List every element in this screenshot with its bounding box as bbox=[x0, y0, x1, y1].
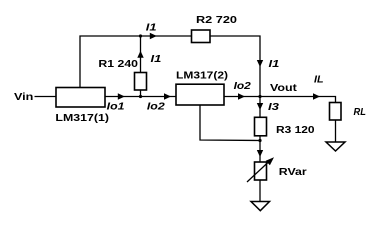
wire RL to ground bbox=[335, 120, 337, 142]
wire R1 bottom stub bbox=[140, 90, 142, 97]
wire top rail right segment bbox=[210, 36, 260, 97]
svg-text:I3: I3 bbox=[268, 102, 279, 113]
svg-text:I1: I1 bbox=[151, 54, 162, 65]
svg-text:R3 120: R3 120 bbox=[276, 125, 315, 136]
resistor R3 bbox=[255, 117, 267, 136]
arrow IL bbox=[313, 93, 320, 99]
svg-text:I1: I1 bbox=[269, 59, 280, 70]
resistor R2 bbox=[192, 30, 211, 43]
svg-text:LM317(2): LM317(2) bbox=[176, 71, 228, 82]
ground under RVar bbox=[251, 202, 270, 211]
wire R3 bottom stub bbox=[259, 136, 261, 141]
node Vout junction dot bbox=[258, 95, 261, 98]
wire LM317(2) adj to junction bbox=[200, 105, 260, 141]
svg-text:Io2: Io2 bbox=[147, 102, 165, 113]
svg-text:LM317(1): LM317(1) bbox=[55, 113, 109, 124]
svg-text:Vout: Vout bbox=[270, 83, 297, 94]
resistor R1 bbox=[135, 73, 147, 91]
arrow I1 up through R1 bbox=[137, 51, 143, 58]
svg-text:RVar: RVar bbox=[279, 167, 307, 178]
wire Vout to RL bbox=[260, 97, 336, 103]
resistor RL bbox=[330, 103, 342, 121]
arrow Io2 bbox=[164, 93, 171, 99]
wire LM317(2) output bbox=[224, 96, 260, 98]
regulator U2 LM317(2) bbox=[176, 84, 224, 105]
wire Vin lead bbox=[35, 96, 57, 98]
arrow Io1 bbox=[118, 93, 125, 99]
arrow I1 down bbox=[257, 60, 263, 67]
svg-text:IL: IL bbox=[314, 74, 324, 85]
wire main bus LM317(1) to LM317(2) bbox=[105, 96, 176, 98]
arrow I3 bbox=[257, 103, 263, 110]
RVar diagonal arrow bbox=[247, 162, 269, 183]
node A junction dot on top rail bbox=[139, 34, 142, 37]
arrow into RVar bbox=[257, 150, 263, 157]
svg-text:R2 720: R2 720 bbox=[196, 15, 237, 26]
wire R1 branch up bbox=[140, 36, 142, 73]
arrow Io2 out bbox=[238, 93, 245, 99]
svg-text:I1: I1 bbox=[146, 23, 157, 34]
svg-text:Vin: Vin bbox=[14, 92, 33, 103]
wire junction down to RVar bbox=[259, 141, 261, 163]
wire Vout down to R3 bbox=[259, 97, 261, 118]
node junction dot R3/RVar bbox=[258, 139, 261, 142]
arrow I1 on top rail bbox=[150, 33, 157, 39]
svg-text:Io1: Io1 bbox=[107, 102, 125, 113]
regulator U1 LM317(1) bbox=[56, 88, 105, 108]
ground under RL bbox=[326, 142, 345, 151]
wire RVar to ground bbox=[259, 180, 261, 202]
svg-text:RL: RL bbox=[354, 107, 366, 118]
node junction dot R1 bottom bbox=[139, 95, 142, 98]
svg-text:Io2: Io2 bbox=[234, 81, 252, 92]
wire from LM317(1) top up bbox=[80, 36, 192, 88]
potentiometer RVar bbox=[255, 162, 267, 180]
svg-text:R1 240: R1 240 bbox=[98, 59, 138, 70]
